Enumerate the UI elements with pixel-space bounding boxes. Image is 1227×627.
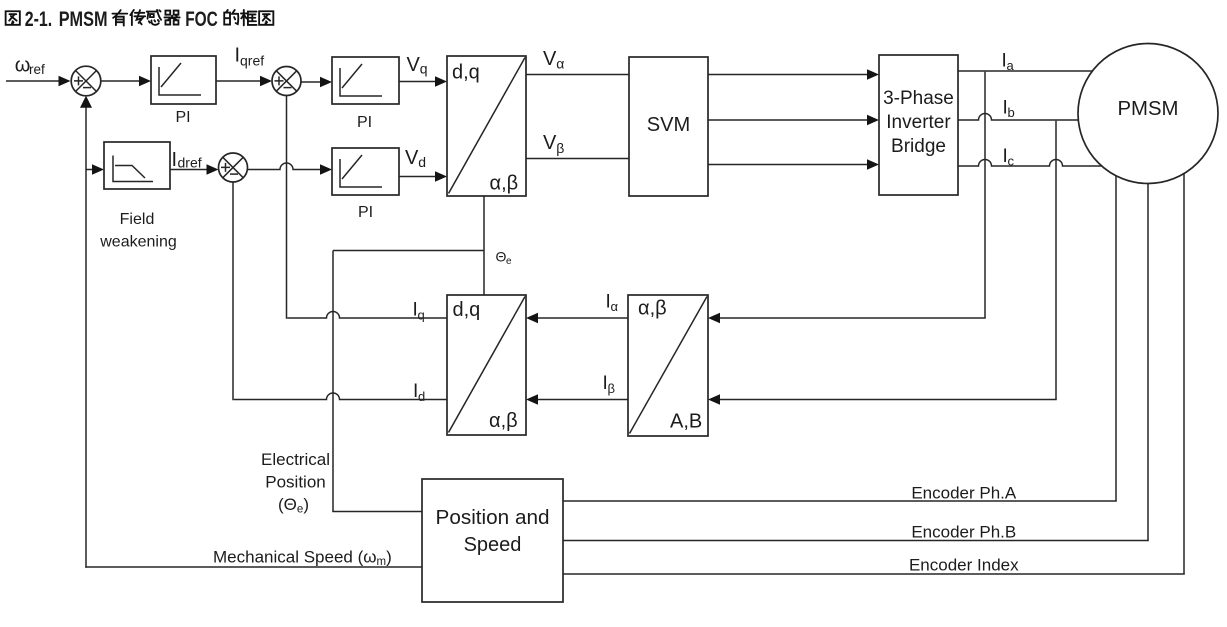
wire FW to S3 [170,169,207,171]
wire theta-e horizontal tee to left [333,250,484,252]
svg-text:α: α [556,56,564,72]
node Ialpha label [606,292,619,315]
node theta-e label [496,249,513,268]
svg-text:V: V [407,54,421,76]
node Vbeta label [543,132,564,156]
wire input wref [6,80,60,82]
transform block T1 dq to alpha-beta (inverse Park) [447,56,526,196]
svg-text:dref: dref [178,155,202,171]
wire encoder Index horizontal [563,573,1185,575]
summing junction S2 [272,67,301,96]
wire PI1 to S2 [216,80,261,82]
wire Vbeta T1 to SVM [526,158,629,160]
svg-text:PI: PI [357,114,372,131]
arrowhead Vq into Park T1 [435,76,447,86]
block Position and Speed [422,479,563,602]
arrowhead into PI1 [139,76,151,86]
svg-text:Electrical: Electrical [261,450,330,469]
svg-text:q: q [418,308,425,323]
svg-text:weakening: weakening [99,234,177,251]
wire Ic inverter to PMSM with hops at tap1 and tap2 [958,160,1102,167]
wire Valpha T1 to SVM [526,74,629,76]
wire tap2 vertical from Ib [1055,121,1057,400]
node Iqref label [235,45,265,69]
node Ia label [1002,51,1015,74]
arrowhead Vd into Park T1 [435,171,447,181]
svg-text:FOC: FOC [185,8,218,31]
node Ib label [1003,98,1015,121]
node Ic label [1003,146,1015,169]
svg-text:Mechanical Speed (ωm): Mechanical Speed (ωm) [213,548,392,569]
wire tap1 vertical from Ia [984,72,986,318]
arrowhead Ia sense into T3 [708,313,720,323]
PI block PI3 [332,148,399,195]
svg-text:β: β [556,140,564,156]
svg-text:PI: PI [175,109,190,126]
wire SVM out C [708,164,868,166]
arrowhead speed into S1 from below [80,96,92,108]
arrowhead into PI2 [320,77,332,87]
wire Vd PI3 to Park [399,176,436,178]
wire theta-e vertical down to Position and Speed [332,251,334,512]
wire Ialpha T3 to T2 [537,317,628,319]
svg-text:PI: PI [358,204,373,221]
wire Ia inverter to PMSM [958,70,1092,72]
wire S3 drop vertical [232,182,234,400]
svg-text:q: q [420,61,428,77]
svg-text:Position: Position [265,473,325,492]
block 3-Phase Inverter Bridge [879,55,958,195]
PI block PI2 [332,57,399,104]
wire encoder PhB horizontal [563,540,1149,542]
arrowhead into PI3 [320,164,332,174]
transform block T3 alpha-beta from A,B (Clarke) [628,295,708,436]
title: 图 2-1. PMSM 有传感器 FOC 的框图 [6,8,274,31]
arrowhead into inverter A [867,69,879,79]
node Idref label [172,149,202,171]
wire S2 to PI2 [301,81,321,83]
arrowhead into inverter C [867,159,879,169]
wire Ibeta T3 to T2 [537,399,628,401]
arrowhead into field weakening [92,164,104,174]
arrowhead into summer S2 [260,76,272,86]
svg-text:Encoder Ph.B: Encoder Ph.B [911,523,1016,542]
arrowhead into summer S3 [207,164,219,174]
label Field weakening [99,211,177,251]
svg-text:e: e [506,256,512,267]
wire SVM out B [708,119,868,121]
node Iq label [413,300,425,323]
node Vd label [405,147,426,170]
block SVM [629,57,708,196]
wire S3 to PI3 with hop over S2 drop [247,163,321,170]
node Id label [413,381,425,404]
svg-text:α,β: α,β [638,298,667,320]
arrowhead Ibeta into T2 [526,394,538,404]
arrowhead into summer S1 [59,76,71,86]
svg-text:(Θe): (Θe) [278,495,309,516]
svg-text:Encoder Index: Encoder Index [909,556,1019,575]
svg-text:α,β: α,β [490,173,519,195]
svg-text:d,q: d,q [452,62,480,84]
wire S1 to PI1 [101,80,140,82]
svg-text:Bridge: Bridge [891,136,946,157]
svg-text:SVM: SVM [647,114,691,136]
wire Ib sense into T3 [719,399,1057,401]
arrowhead Ialpha into T2 [526,313,538,323]
svg-text:β: β [608,381,615,396]
arrowhead Ib sense into T3 [708,394,720,404]
svg-text:Field: Field [120,211,155,228]
wire theta-e vertical between T1 and T2 [483,196,485,295]
svg-text:Position and: Position and [436,507,550,529]
svg-text:PMSM: PMSM [59,8,108,31]
PI block PI1 [151,56,216,104]
svg-text:d,q: d,q [453,299,481,321]
svg-text:Inverter: Inverter [886,112,951,133]
block field weakening FW [104,142,170,189]
wire encoder PhA vertical from PMSM [1115,176,1117,501]
svg-text:b: b [1008,105,1015,120]
wire SVM out A [708,74,868,76]
wire mechanical speed feedback horizontal [85,566,422,568]
wire Vq PI2 to Park [399,81,436,83]
transform block T2 alpha-beta to dq (Park) [447,295,526,435]
svg-text:V: V [405,147,419,169]
wire mechanical speed feedback vertical [85,106,87,568]
arrowhead into inverter B [867,115,879,125]
svg-text:Encoder Ph.A: Encoder Ph.A [911,484,1017,503]
wire Iq feedback T2 to S2 drop with hop [287,312,447,318]
summing junction S3 [219,153,248,182]
wire S2 drop vertical [286,96,288,319]
wire speed branch to field weakening [86,169,93,171]
svg-text:3-Phase: 3-Phase [883,88,954,109]
svg-text:α,β: α,β [489,410,518,432]
svg-text:A,B: A,B [670,411,702,433]
wire theta-e into Position and Speed [332,511,422,513]
svg-text:α: α [611,299,619,314]
wire Ia sense into T3 [719,317,986,319]
svg-text:I: I [172,149,178,171]
svg-text:d: d [418,154,426,170]
wire encoder PhB vertical from PMSM [1147,184,1149,541]
wire Ib inverter to PMSM with hop at tap1 [958,114,1078,121]
wire encoder Index vertical from PMSM [1183,174,1185,575]
node Ibeta label [603,373,615,396]
svg-text:V: V [543,48,557,70]
svg-text:ref: ref [29,62,45,77]
node Valpha label [543,48,564,72]
svg-text:Speed: Speed [464,534,522,556]
motor PMSM [1078,44,1218,184]
svg-text:qref: qref [240,53,264,69]
svg-text:2-1.: 2-1. [25,8,52,31]
node Vq label [407,54,428,77]
label Electrical Position (theta-e) [261,450,330,516]
wire encoder PhA horizontal [563,500,1117,502]
svg-text:V: V [543,132,557,154]
summing junction S1 [71,66,101,96]
svg-text:PMSM: PMSM [1118,98,1179,120]
svg-text:d: d [418,389,425,404]
node wref input label [15,55,45,78]
wire Id feedback T2 to S3 drop with hop [234,393,447,400]
svg-text:Θ: Θ [496,249,507,265]
